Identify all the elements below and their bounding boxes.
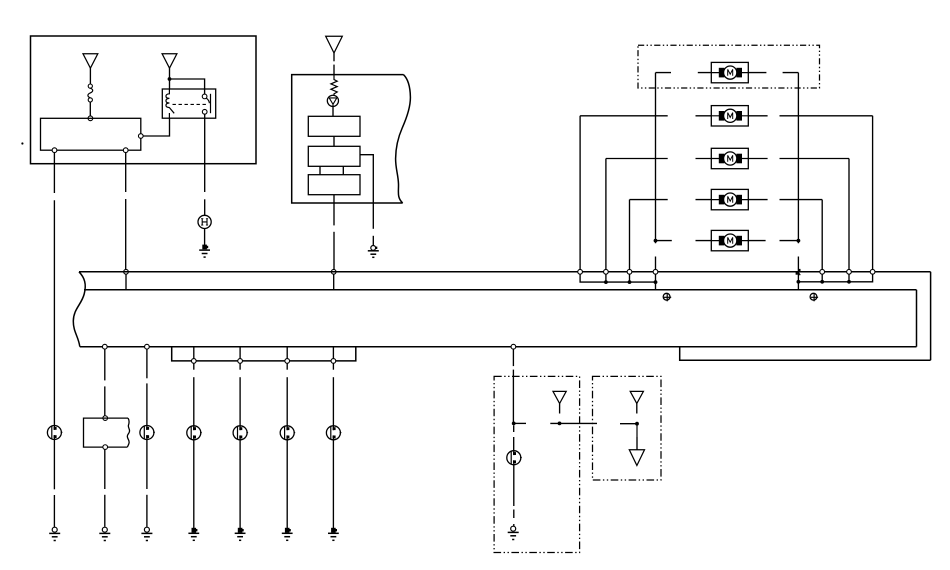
wire (146, 440, 148, 490)
terminal on bus (578, 269, 583, 274)
wire (333, 232, 335, 270)
wire (798, 274, 872, 282)
wire (655, 282, 657, 289)
relay box (162, 89, 215, 118)
wire (125, 274, 127, 289)
relay contact (top) (202, 94, 207, 99)
relay coil (166, 89, 174, 118)
pump symbol (327, 95, 338, 106)
bus top line (79, 271, 931, 273)
wire (169, 68, 171, 89)
switch (326, 426, 341, 440)
wire (125, 199, 127, 270)
wire (204, 229, 206, 246)
ground (328, 528, 339, 541)
terminal (238, 359, 243, 364)
wire (332, 363, 334, 370)
bus second line (84, 289, 917, 291)
terminal (103, 445, 108, 450)
wire (372, 236, 374, 246)
block 1 (308, 116, 360, 136)
wire (797, 282, 799, 289)
junction (654, 280, 658, 284)
wire (513, 437, 515, 451)
power triangle B+ (left) (83, 54, 98, 68)
terminal on bus (653, 269, 658, 274)
motor M2 (711, 106, 748, 126)
wire (286, 363, 288, 370)
power triangle B+ (relay) (162, 54, 177, 68)
wire (286, 440, 288, 528)
junction (820, 280, 824, 284)
terminal (52, 148, 57, 153)
wire (125, 152, 127, 192)
terminal on bus bottom (102, 344, 107, 349)
wire (332, 440, 334, 528)
wire (333, 274, 335, 289)
relay coil-contact dashed link (173, 103, 208, 105)
wire (104, 449, 106, 489)
wire (53, 495, 55, 527)
wire (146, 383, 148, 425)
wire (193, 347, 195, 359)
control unit block (41, 118, 141, 150)
switch (280, 426, 295, 440)
wire (143, 118, 169, 136)
ground bolt G401 (663, 293, 671, 301)
off-page triangle (down) (629, 450, 644, 466)
wire (748, 115, 872, 117)
terminal (191, 359, 196, 364)
bus torn left edge (73, 272, 85, 347)
switch S4 (507, 451, 522, 465)
wire (513, 524, 515, 526)
terminal (331, 359, 336, 364)
motor M3 (711, 148, 748, 168)
terminal on bus (820, 269, 825, 274)
wire (239, 363, 241, 370)
wire (319, 166, 321, 174)
wire (332, 377, 334, 425)
ground (washer) (368, 246, 379, 258)
wire (513, 465, 515, 506)
motor M5 (711, 230, 748, 250)
resistor (squiggle) (331, 75, 337, 96)
wire (605, 274, 607, 282)
wire (372, 203, 374, 229)
junction (512, 422, 516, 426)
terminal (138, 134, 143, 139)
dash-dot box (connector ref) (593, 376, 662, 480)
wire (104, 495, 106, 527)
wire (239, 347, 241, 359)
connector tab (172, 347, 356, 361)
ground G3 (141, 527, 152, 540)
switch S1 (47, 426, 62, 440)
switch S3 (140, 426, 155, 440)
wire (360, 155, 373, 203)
wire (333, 195, 335, 203)
wire (629, 200, 631, 270)
wiper/washer switch assembly box (31, 36, 257, 164)
wire (104, 386, 106, 415)
terminal on bus (870, 269, 875, 274)
wire (620, 423, 639, 425)
block 2 (308, 146, 360, 166)
junction (558, 422, 562, 426)
wire (342, 166, 344, 174)
wire (333, 203, 335, 225)
wire (53, 440, 55, 490)
wire (239, 440, 241, 528)
dash-dot box (motor 1 unit) (638, 45, 820, 88)
block 3 (308, 175, 360, 195)
wire (333, 136, 335, 146)
wire (513, 425, 515, 432)
intermittent unit (torn edge) (84, 418, 130, 447)
wire (606, 158, 711, 160)
dash-dot box (intermittent relay) (494, 376, 579, 552)
wire (748, 240, 798, 242)
wire (656, 72, 712, 74)
bus bottom line (80, 346, 917, 348)
wire (514, 422, 526, 424)
ground (horn) (199, 245, 210, 258)
switch (187, 426, 202, 440)
motor M1 (711, 62, 748, 82)
junction (654, 239, 658, 243)
terminal (103, 416, 108, 421)
wire (204, 114, 206, 192)
wire (239, 377, 241, 425)
wire (332, 347, 334, 359)
bus outer bottom (680, 347, 931, 361)
switch (233, 426, 248, 440)
wire (655, 274, 657, 282)
terminal on bus (331, 269, 336, 274)
horn H (198, 215, 211, 228)
ground G4 (508, 526, 519, 539)
terminal on bus (124, 269, 129, 274)
wire (797, 241, 799, 282)
power triangle B+ (middle) (326, 36, 343, 53)
junction (797, 280, 801, 284)
ground G1 (49, 527, 60, 540)
terminal on bus bottom (145, 344, 150, 349)
wire (656, 240, 712, 242)
wire (636, 404, 638, 414)
wire (848, 274, 850, 282)
wire (748, 158, 849, 160)
wire (580, 274, 655, 282)
wire (53, 200, 55, 425)
terminal on bus (847, 269, 852, 274)
wire (286, 377, 288, 425)
relay fixed contact (210, 94, 212, 113)
wire (605, 159, 607, 270)
wire (53, 152, 55, 193)
wire (579, 116, 581, 270)
wire (748, 72, 798, 74)
wire (636, 437, 638, 450)
terminal (123, 148, 128, 153)
junction (168, 77, 172, 81)
wire (146, 349, 148, 378)
junction (847, 280, 851, 284)
wire (580, 115, 711, 117)
relay blade (206, 98, 209, 103)
wire (193, 377, 195, 425)
wire (848, 159, 850, 270)
ground G2 (99, 527, 110, 540)
terminal (285, 359, 290, 364)
fuse F1 (88, 84, 93, 102)
wire (204, 199, 206, 215)
wire (655, 73, 657, 241)
terminal on bus bottom (511, 344, 516, 349)
wire (821, 274, 823, 282)
wire (559, 404, 561, 414)
wire (630, 199, 712, 201)
wire (512, 370, 514, 422)
wire (332, 106, 334, 116)
motor M4 (711, 189, 748, 209)
junction (pass-through) (796, 269, 801, 275)
wire (193, 363, 195, 370)
wire (636, 426, 638, 438)
junction (628, 280, 632, 284)
wire (872, 116, 874, 270)
wire (821, 200, 823, 270)
wire (146, 495, 148, 527)
bus inner right edge (916, 290, 918, 347)
wire (333, 53, 335, 61)
wire (550, 422, 597, 424)
power triangle (inner) (553, 391, 566, 403)
wire (89, 68, 91, 84)
wire (512, 349, 514, 366)
junction (604, 280, 608, 284)
bus right edge (930, 272, 932, 360)
wire (797, 73, 799, 241)
power triangle (right box) (630, 391, 643, 403)
wire (89, 102, 91, 116)
wire (629, 274, 631, 282)
wire (748, 199, 822, 201)
washer unit box (torn edge) (292, 75, 411, 203)
wire (333, 65, 335, 75)
junction (797, 239, 801, 243)
ground bolt G402 (810, 293, 818, 301)
wire (170, 79, 205, 94)
terminal (88, 116, 93, 121)
terminal on bus (627, 269, 632, 274)
ground (282, 528, 293, 541)
relay contact (bottom) (202, 109, 207, 114)
wire (193, 440, 195, 528)
terminal on bus (604, 269, 609, 274)
wire (655, 241, 657, 270)
ground (188, 528, 199, 541)
stray dot (21, 142, 23, 144)
wire (513, 510, 515, 519)
wire (286, 347, 288, 359)
junction (635, 422, 639, 426)
wire (104, 349, 106, 381)
ground (235, 528, 246, 541)
